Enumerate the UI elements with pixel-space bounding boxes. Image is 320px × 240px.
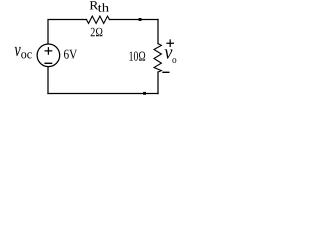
- label v_oc v: [15, 47, 21, 56]
- wire right rail lower: [157, 72, 159, 94]
- label 6V: [64, 50, 77, 59]
- resistor 10-ohm zigzag (right rail): [154, 44, 161, 72]
- wire left rail lower: [47, 67, 49, 93]
- wire right rail upper: [157, 20, 159, 44]
- node junction dot (top): [139, 18, 142, 21]
- resistor R_th 2-ohm zigzag (top rail): [87, 16, 110, 23]
- wire top rail right segment: [110, 19, 159, 21]
- voltage source circle: [37, 44, 60, 67]
- label v_oc oc: [21, 52, 32, 58]
- polarity plus for v_o: [167, 40, 173, 46]
- voltage source minus sign: [45, 62, 52, 64]
- label th: [98, 3, 109, 12]
- node junction dot (bottom): [143, 92, 146, 95]
- polarity minus for v_o: [163, 71, 169, 73]
- wire bottom rail: [48, 93, 158, 95]
- label 2ohm: [91, 28, 103, 37]
- label R: [90, 1, 99, 9]
- label v_o o: [172, 58, 176, 63]
- voltage source plus sign: [45, 48, 52, 54]
- wire left rail upper + top rail left segment: [48, 20, 87, 44]
- label 10ohm: [130, 52, 146, 61]
- label v_o v: [165, 49, 173, 58]
